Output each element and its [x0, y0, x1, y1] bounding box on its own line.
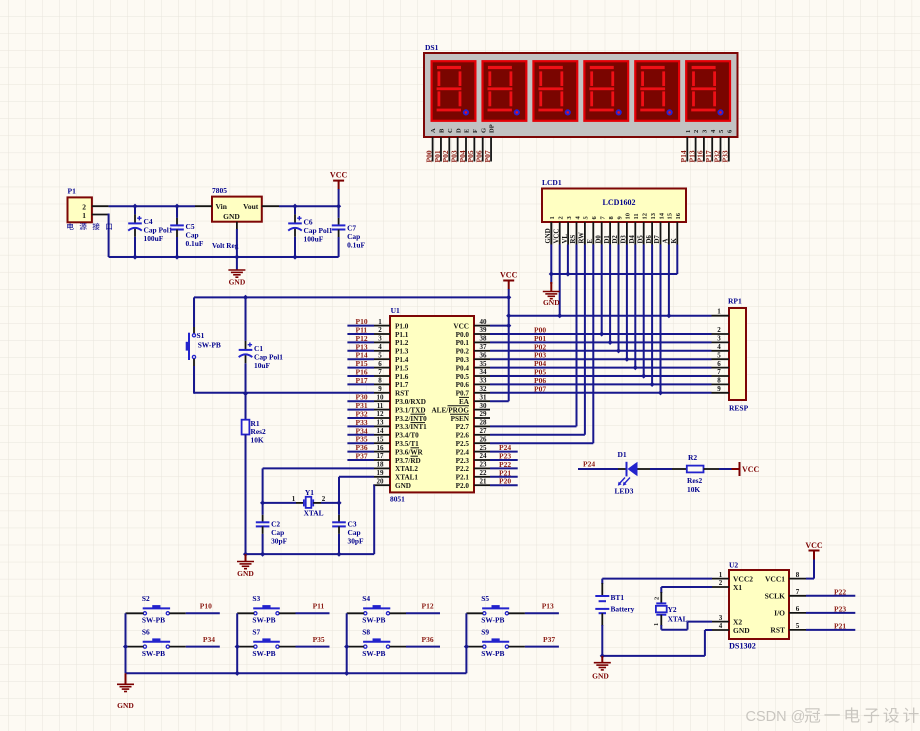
svg-text:S1: S1 — [197, 331, 205, 340]
svg-text:25: 25 — [480, 444, 488, 452]
svg-text:1: 1 — [378, 318, 382, 326]
svg-text:Battery: Battery — [611, 605, 635, 614]
svg-text:7: 7 — [378, 368, 382, 376]
svg-text:SCLK: SCLK — [765, 592, 786, 601]
svg-text:D1: D1 — [618, 450, 627, 459]
svg-text:LCD1602: LCD1602 — [603, 198, 636, 207]
svg-text:RST: RST — [395, 390, 409, 398]
svg-text:P3.6/WR: P3.6/WR — [395, 448, 424, 456]
svg-text:RESP: RESP — [729, 404, 749, 413]
svg-text:P1.5: P1.5 — [395, 364, 409, 372]
svg-text:40: 40 — [480, 318, 488, 326]
svg-text:35: 35 — [480, 360, 488, 368]
svg-text:1: 1 — [719, 571, 723, 579]
svg-text:4: 4 — [717, 343, 721, 351]
svg-text:XTAL: XTAL — [304, 509, 324, 518]
svg-text:P13: P13 — [542, 602, 554, 611]
svg-text:GND: GND — [543, 298, 560, 307]
svg-text:XTAL2: XTAL2 — [395, 465, 418, 473]
svg-text:RW: RW — [579, 232, 586, 244]
svg-text:SW-PB: SW-PB — [142, 616, 165, 625]
svg-text:SW-PB: SW-PB — [481, 616, 504, 625]
svg-text:P0.7: P0.7 — [456, 390, 470, 398]
svg-text:S6: S6 — [142, 627, 150, 636]
svg-text:1: 1 — [549, 216, 556, 219]
svg-text:32: 32 — [480, 385, 488, 393]
svg-text:SW-PB: SW-PB — [142, 649, 165, 658]
svg-text:GND: GND — [733, 626, 750, 635]
svg-text:39: 39 — [480, 326, 488, 334]
svg-text:S5: S5 — [481, 594, 489, 603]
svg-text:Vout: Vout — [243, 202, 259, 211]
svg-text:A: A — [430, 128, 437, 133]
svg-text:P3.3/INT1: P3.3/INT1 — [395, 423, 427, 431]
svg-text:5: 5 — [796, 622, 800, 630]
svg-text:DS1: DS1 — [425, 43, 439, 52]
svg-text:DS1302: DS1302 — [729, 642, 756, 651]
svg-text:SW-PB: SW-PB — [481, 649, 504, 658]
svg-text:VCC: VCC — [553, 229, 560, 244]
svg-text:G: G — [480, 128, 487, 133]
svg-text:33: 33 — [480, 377, 488, 385]
svg-text:P12: P12 — [422, 602, 434, 611]
svg-text:A: A — [663, 239, 670, 244]
svg-text:VL: VL — [562, 234, 569, 244]
svg-text:D0: D0 — [595, 235, 602, 244]
svg-text:RST: RST — [770, 626, 785, 635]
svg-text:26: 26 — [480, 435, 488, 443]
svg-text:0.1uF: 0.1uF — [347, 241, 365, 250]
svg-text:P36: P36 — [422, 635, 434, 644]
svg-text:P2.0: P2.0 — [456, 482, 470, 490]
svg-text:P1.0: P1.0 — [395, 322, 409, 330]
svg-text:9: 9 — [717, 385, 721, 393]
svg-text:S2: S2 — [142, 594, 150, 603]
svg-text:GND: GND — [223, 212, 240, 221]
svg-text:24: 24 — [480, 452, 488, 460]
svg-text:P2.2: P2.2 — [456, 465, 470, 473]
svg-text:S7: S7 — [252, 627, 260, 636]
svg-text:8: 8 — [796, 571, 800, 579]
svg-text:F: F — [472, 129, 479, 133]
svg-text:RP1: RP1 — [728, 297, 742, 306]
svg-text:GND: GND — [117, 701, 134, 710]
svg-text:Y2: Y2 — [668, 605, 677, 614]
svg-text:11: 11 — [377, 402, 384, 410]
svg-text:P2.7: P2.7 — [456, 423, 470, 431]
svg-text:D5: D5 — [637, 235, 644, 244]
svg-text:2: 2 — [717, 326, 721, 334]
svg-text:P2.3: P2.3 — [456, 457, 470, 465]
svg-text:P3.7/RD: P3.7/RD — [395, 457, 421, 465]
svg-text:VCC: VCC — [500, 271, 518, 280]
svg-text:SW-PB: SW-PB — [362, 649, 385, 658]
svg-text:34: 34 — [480, 368, 488, 376]
svg-text:P1.7: P1.7 — [395, 381, 409, 389]
svg-text:P37: P37 — [356, 452, 368, 461]
svg-text:19: 19 — [377, 469, 385, 477]
svg-text:P1.6: P1.6 — [395, 373, 409, 381]
svg-text:S8: S8 — [362, 627, 370, 636]
svg-text:100uF: 100uF — [304, 235, 324, 244]
svg-text:LED3: LED3 — [615, 487, 634, 496]
svg-text:10K: 10K — [251, 436, 264, 445]
svg-text:1: 1 — [685, 130, 692, 133]
svg-text:ALE/PROG: ALE/PROG — [431, 406, 469, 414]
svg-text:3: 3 — [378, 335, 382, 343]
svg-text:4: 4 — [719, 622, 723, 630]
svg-text:1: 1 — [653, 623, 660, 626]
svg-text:28: 28 — [480, 419, 488, 427]
svg-text:15: 15 — [377, 435, 385, 443]
svg-text:P10: P10 — [200, 602, 212, 611]
svg-text:Vin: Vin — [216, 202, 228, 211]
svg-text:6: 6 — [717, 360, 721, 368]
svg-text:P2.4: P2.4 — [456, 448, 470, 456]
svg-text:5: 5 — [378, 351, 382, 359]
svg-text:P11: P11 — [313, 602, 325, 611]
svg-text:VCC: VCC — [330, 171, 348, 180]
svg-text:B: B — [439, 128, 446, 133]
svg-text:R2: R2 — [688, 453, 697, 462]
svg-text:EA: EA — [459, 398, 470, 406]
svg-text:22: 22 — [480, 469, 488, 477]
svg-text:6: 6 — [378, 360, 382, 368]
svg-text:P2.6: P2.6 — [456, 432, 470, 440]
svg-text:12: 12 — [377, 410, 385, 418]
svg-text:P1.2: P1.2 — [395, 339, 409, 347]
svg-text:U1: U1 — [391, 306, 400, 315]
svg-text:10: 10 — [625, 213, 632, 220]
svg-text:VCC: VCC — [742, 465, 760, 474]
svg-text:VCC: VCC — [805, 541, 823, 550]
svg-text:37: 37 — [480, 343, 488, 351]
svg-text:SW-PB: SW-PB — [252, 616, 275, 625]
svg-text:31: 31 — [480, 393, 488, 401]
svg-text:Volt Reg: Volt Reg — [212, 242, 239, 250]
svg-text:P21: P21 — [834, 621, 846, 630]
svg-text:RS: RS — [570, 235, 577, 244]
svg-text:SW-PB: SW-PB — [198, 341, 221, 350]
svg-text:29: 29 — [480, 410, 488, 418]
svg-text:11: 11 — [633, 213, 640, 219]
svg-text:16: 16 — [675, 212, 682, 219]
svg-text:2: 2 — [378, 326, 382, 334]
svg-text:30: 30 — [480, 402, 488, 410]
svg-text:P34: P34 — [203, 635, 215, 644]
svg-text:BT1: BT1 — [611, 593, 625, 602]
svg-text:2: 2 — [719, 579, 723, 587]
svg-text:S3: S3 — [252, 594, 260, 603]
svg-text:S9: S9 — [481, 627, 489, 636]
svg-text:7805: 7805 — [212, 186, 227, 195]
svg-text:I/O: I/O — [774, 609, 785, 618]
svg-text:S4: S4 — [362, 594, 370, 603]
svg-text:P3.5/T1: P3.5/T1 — [395, 440, 419, 448]
svg-text:7: 7 — [717, 368, 721, 376]
svg-text:XTAL: XTAL — [668, 615, 688, 624]
svg-text:8: 8 — [378, 377, 382, 385]
svg-text:PSEN: PSEN — [451, 415, 470, 423]
svg-text:U2: U2 — [729, 561, 738, 570]
svg-text:P2.1: P2.1 — [456, 474, 470, 482]
svg-text:XTAL1: XTAL1 — [395, 474, 418, 482]
svg-text:P3.2/INT0: P3.2/INT0 — [395, 415, 427, 423]
svg-text:SW-PB: SW-PB — [252, 649, 275, 658]
svg-text:CSDN @: CSDN @ — [746, 709, 806, 725]
svg-text:P20: P20 — [499, 477, 511, 486]
svg-text:16: 16 — [377, 444, 385, 452]
svg-text:D2: D2 — [612, 235, 619, 244]
svg-text:14: 14 — [377, 427, 385, 435]
svg-text:E: E — [464, 129, 471, 133]
svg-text:X1: X1 — [733, 583, 742, 592]
svg-text:LCD1: LCD1 — [542, 178, 562, 187]
svg-text:D: D — [455, 128, 462, 133]
svg-text:P3.1/TXD: P3.1/TXD — [395, 406, 426, 414]
svg-text:8051: 8051 — [390, 495, 405, 504]
svg-text:14: 14 — [658, 212, 665, 219]
svg-text:VCC1: VCC1 — [765, 574, 785, 583]
svg-text:P37: P37 — [543, 635, 555, 644]
svg-text:P22: P22 — [834, 587, 846, 596]
svg-text:23: 23 — [480, 461, 488, 469]
svg-text:4: 4 — [378, 343, 382, 351]
svg-text:P0.0: P0.0 — [456, 331, 470, 339]
svg-text:GND: GND — [229, 278, 246, 287]
svg-text:P3.0/RXD: P3.0/RXD — [395, 398, 426, 406]
svg-text:K: K — [671, 238, 678, 244]
svg-text:2: 2 — [693, 130, 700, 133]
svg-text:Y1: Y1 — [305, 488, 314, 497]
svg-text:18: 18 — [377, 461, 385, 469]
svg-text:6: 6 — [796, 605, 800, 613]
svg-text:27: 27 — [480, 427, 488, 435]
svg-text:P23: P23 — [834, 604, 846, 613]
svg-text:P1: P1 — [68, 187, 77, 196]
svg-text:P0.2: P0.2 — [456, 348, 470, 356]
svg-text:GND: GND — [395, 482, 411, 490]
svg-text:P1.4: P1.4 — [395, 356, 409, 364]
svg-text:C: C — [447, 128, 454, 133]
svg-text:P1.3: P1.3 — [395, 348, 409, 356]
svg-text:3: 3 — [717, 335, 721, 343]
svg-text:P3.4/T0: P3.4/T0 — [395, 432, 419, 440]
svg-text:0.1uF: 0.1uF — [186, 239, 204, 248]
svg-text:1: 1 — [82, 211, 86, 220]
svg-text:10K: 10K — [687, 485, 700, 494]
svg-text:8: 8 — [717, 377, 721, 385]
svg-text:38: 38 — [480, 335, 488, 343]
svg-text:9: 9 — [378, 385, 382, 393]
svg-text:P17: P17 — [356, 376, 368, 385]
svg-text:2: 2 — [322, 495, 326, 503]
svg-text:Res2: Res2 — [687, 476, 702, 485]
svg-text:SW-PB: SW-PB — [362, 616, 385, 625]
svg-text:D6: D6 — [646, 235, 653, 244]
svg-text:15: 15 — [667, 212, 674, 219]
svg-text:30pF: 30pF — [271, 537, 288, 546]
svg-text:30pF: 30pF — [348, 537, 365, 546]
svg-text:12: 12 — [642, 213, 649, 220]
svg-text:GND: GND — [592, 672, 609, 681]
svg-text:100uF: 100uF — [144, 234, 164, 243]
svg-text:5: 5 — [717, 351, 721, 359]
svg-text:13: 13 — [650, 212, 657, 219]
svg-text:21: 21 — [480, 477, 488, 485]
svg-text:P33: P33 — [721, 150, 730, 162]
svg-text:DP: DP — [489, 124, 496, 133]
svg-text:1: 1 — [292, 495, 296, 503]
svg-text:P1.1: P1.1 — [395, 331, 409, 339]
svg-text:P0.1: P0.1 — [456, 339, 470, 347]
svg-text:D1: D1 — [604, 235, 611, 244]
svg-text:3: 3 — [719, 614, 723, 622]
svg-text:D7: D7 — [654, 235, 661, 244]
svg-text:E: E — [587, 239, 594, 244]
svg-text:P35: P35 — [313, 635, 325, 644]
svg-text:VCC: VCC — [453, 322, 469, 330]
svg-text:P24: P24 — [583, 460, 595, 469]
svg-text:20: 20 — [377, 477, 385, 485]
svg-text:P2.5: P2.5 — [456, 440, 470, 448]
svg-text:10: 10 — [377, 393, 385, 401]
svg-text:D4: D4 — [629, 235, 636, 244]
svg-text:P0.5: P0.5 — [456, 373, 470, 381]
svg-text:36: 36 — [480, 351, 488, 359]
svg-text:17: 17 — [377, 452, 385, 460]
svg-text:P0.3: P0.3 — [456, 356, 470, 364]
svg-text:2: 2 — [558, 216, 565, 219]
svg-text:GND: GND — [237, 569, 254, 578]
svg-text:P07: P07 — [534, 384, 546, 393]
svg-text:13: 13 — [377, 419, 385, 427]
svg-text:P0.6: P0.6 — [456, 381, 470, 389]
svg-text:P0.4: P0.4 — [456, 364, 470, 372]
svg-text:D3: D3 — [621, 235, 628, 244]
svg-text:2: 2 — [654, 597, 661, 600]
svg-text:P07: P07 — [483, 150, 492, 162]
svg-text:7: 7 — [796, 588, 800, 596]
svg-text:10uF: 10uF — [254, 361, 271, 370]
svg-text:1: 1 — [717, 308, 721, 316]
